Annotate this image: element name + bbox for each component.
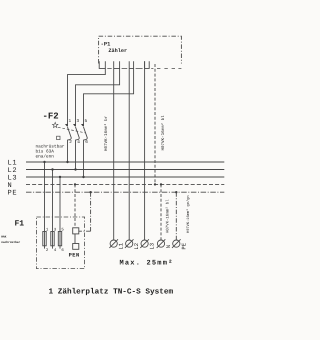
svg-text:N: N <box>165 245 172 248</box>
breaker F2 pole 2 contact <box>73 124 76 127</box>
meter terminal loop 3 (pins 7-9) <box>129 61 133 68</box>
svg-text:3: 3 <box>77 119 80 124</box>
meter U1 enclosure -P1 <box>99 36 182 63</box>
junction L1 / F2 pole 1 <box>66 161 68 163</box>
wire meter N terminal to N bus (dashed) <box>154 64 156 184</box>
meter box bottom dashed edge segments <box>107 67 181 69</box>
junction L1 / F1 <box>43 161 45 163</box>
svg-text:ena/enn: ena/enn <box>36 153 55 159</box>
svg-text:PE: PE <box>180 242 187 249</box>
bus N (dashed) <box>26 183 224 185</box>
wire meter loop3 to breaker F2 pin 5 <box>84 68 134 126</box>
outgoing terminal X3 (L3) <box>141 240 148 247</box>
svg-text:1: 1 <box>46 227 49 232</box>
fuse F1-3 body <box>58 232 61 246</box>
svg-text:6: 6 <box>61 248 64 253</box>
fuse F1-2 body <box>51 232 54 246</box>
wire L1 bus to fuse F1-1 <box>44 162 46 249</box>
outgoing terminal X2 (L2) <box>126 240 133 247</box>
svg-text:1: 1 <box>69 119 72 124</box>
bus L1 <box>26 161 224 163</box>
bus PE (dash-dot) <box>26 191 224 193</box>
junction PE / outgoing PE <box>175 191 177 193</box>
breaker F2 pole 3 contact <box>81 124 84 127</box>
svg-text:Zähler: Zähler <box>108 48 127 54</box>
PEN upper terminal square <box>73 228 79 234</box>
bus L2 <box>26 169 224 171</box>
svg-text:4: 4 <box>77 140 80 145</box>
meter terminal loop 4 <box>145 61 150 68</box>
junction N / PEN drop <box>74 183 76 185</box>
svg-text:-F2: -F2 <box>43 112 59 122</box>
fuse F1-1 body <box>43 232 46 246</box>
svg-text:4: 4 <box>54 248 57 253</box>
junction L2 / F1 <box>51 168 53 170</box>
svg-text:PEN: PEN <box>69 252 80 258</box>
wire meter loop1 to breaker F2 pin 1 <box>68 68 106 126</box>
svg-text:L2: L2 <box>133 243 140 250</box>
wire PEN upper to lower terminal <box>74 234 76 244</box>
outgoing terminal X1 (L1) <box>110 240 117 247</box>
breaker F2 mechanical link (dashed) <box>58 127 86 133</box>
svg-text:3: 3 <box>54 227 57 232</box>
svg-text:-P1: -P1 <box>101 42 111 48</box>
svg-text:HAK: HAK <box>1 236 6 239</box>
svg-text:6: 6 <box>85 140 88 145</box>
HAK enclosure F1 (dash-dot box) <box>36 217 84 269</box>
bus L3 <box>26 176 224 178</box>
breaker F2 pole 2 blade <box>76 127 80 140</box>
wire PE bus to outgoing terminal X5 (dash-dot) <box>175 192 177 240</box>
PEN lower terminal square <box>73 244 79 250</box>
wire L2 bus to fuse F1-2 <box>52 170 54 249</box>
junction PE / PEN drop <box>89 191 91 193</box>
svg-text:2: 2 <box>69 140 72 145</box>
junction N / outgoing N <box>160 183 162 185</box>
svg-text:N: N <box>8 182 13 190</box>
wire PE bus to PEN terminal (dash-dot) <box>90 192 92 231</box>
wire meter loop2 to breaker F2 pin 3 <box>76 68 120 126</box>
svg-text:F1: F1 <box>15 219 25 228</box>
svg-text:L1: L1 <box>118 242 125 249</box>
junction L2 / F2 pole 2 <box>74 168 76 170</box>
junction L3 / F1 <box>59 176 61 178</box>
wire N bus to PEN terminal (dashed) <box>74 184 76 227</box>
svg-text:Max. 25mm²: Max. 25mm² <box>120 260 174 268</box>
wire meter output to terminal X2 (L2) <box>128 61 130 240</box>
breaker F2 characteristic star symbol <box>52 122 58 127</box>
breaker F2 pole 1 contact <box>65 124 68 127</box>
breaker F2 pole 1 blade <box>68 127 72 140</box>
outgoing terminal X4 (N) <box>157 240 164 247</box>
svg-text:H07VK-16mm² bl: H07VK-16mm² bl <box>165 199 170 233</box>
svg-text:2: 2 <box>46 248 49 253</box>
junction L3 / F2 pole 3 <box>82 176 84 178</box>
wire breaker F2 pole 2 to L2 bus <box>75 140 77 170</box>
svg-text:5: 5 <box>61 227 64 232</box>
wire breaker F2 pole 1 to L1 bus <box>67 140 69 162</box>
wire breaker F2 pole 3 to L3 bus <box>83 140 85 177</box>
svg-text:L3: L3 <box>149 243 156 250</box>
wire N bus to outgoing terminal X4 (dashed) <box>160 184 162 240</box>
svg-text:1 Zählerplatz TN-C-S System: 1 Zählerplatz TN-C-S System <box>49 288 174 297</box>
svg-text:H07VK-16mm² ge/gn: H07VK-16mm² ge/gn <box>186 195 191 233</box>
outgoing terminal X5 (PE) <box>173 240 180 247</box>
meter terminal loop 2 (pins 4-6) <box>114 61 120 68</box>
svg-text:nachrüstbar: nachrüstbar <box>1 240 20 244</box>
breaker F2 characteristic square symbol <box>57 136 60 139</box>
junction N / meter N wire <box>154 183 156 185</box>
svg-text:PE: PE <box>8 190 18 198</box>
wire meter output to terminal X3 (L3) <box>144 61 146 240</box>
svg-text:H07VK-16mm² br: H07VK-16mm² br <box>103 115 109 151</box>
wire L3 bus to fuse F1-3 <box>59 177 61 249</box>
wire meter output to terminal X1 (L1) <box>113 61 115 240</box>
svg-text:H07VK-16mm² bl: H07VK-16mm² bl <box>160 115 166 151</box>
meter terminal loop 1 (pins 1-3) <box>99 61 105 68</box>
wire PE drop to PEN upper terminal <box>79 230 91 232</box>
svg-text:5: 5 <box>85 119 88 124</box>
breaker F2 pole 3 blade <box>84 127 88 140</box>
